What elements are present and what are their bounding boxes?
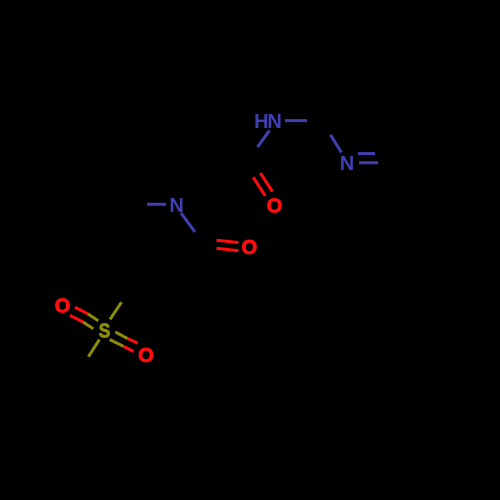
wire: double bond C=O2 line 2, O half xyxy=(217,248,239,251)
svg-text:O: O xyxy=(55,296,71,318)
wire: double bond S=O3 line 2, O half xyxy=(70,315,83,322)
wire: double bond S=O4 line 2, O half xyxy=(123,346,133,351)
wire: bond N(H)-C(=O), N half xyxy=(258,131,270,148)
wire: bond N(H)-C2(pyridine), N half xyxy=(285,119,307,122)
wire: double bond C=O2 line 1, O half xyxy=(217,240,239,242)
wire: bond C2py-N1py, N half xyxy=(331,135,342,153)
wire: bond S-CH3, S half xyxy=(88,340,99,357)
wire: bond S-C(ring), S half xyxy=(110,302,122,319)
wire: bond Nring-C left, N half xyxy=(147,203,166,206)
wire: double bond S=O3 line 1, S half xyxy=(88,314,98,321)
wire: double bond S=O4 line 1, S half xyxy=(115,332,127,339)
wire: double bond S=O3 line 2, S half xyxy=(83,322,93,329)
svg-text:N: N xyxy=(267,111,281,133)
svg-text:N: N xyxy=(169,195,183,217)
wire: double bond N1py=C6py line 1, N half xyxy=(358,152,375,155)
svg-text:S: S xyxy=(99,320,111,342)
wire: bond Nring-C(=O), N half xyxy=(181,213,195,232)
wire: double bond S=O3 line 1, O half xyxy=(75,307,88,314)
wire: double bond S=O4 line 1, O half xyxy=(128,339,138,344)
wire: double bond C=O1 line 1, O half xyxy=(260,173,272,192)
wire: double bond S=O4 line 2, S half xyxy=(110,340,124,347)
wire: double bond N1py=C6py line 2, N half xyxy=(359,161,378,164)
svg-text:O: O xyxy=(267,196,283,218)
svg-text:O: O xyxy=(138,345,154,367)
wire: double bond C=O1 line 2, O half xyxy=(253,177,265,196)
svg-text:N: N xyxy=(340,153,354,175)
svg-text:O: O xyxy=(242,237,258,259)
